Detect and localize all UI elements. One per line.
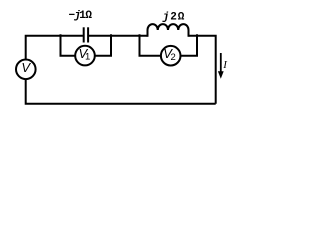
voltmeter V2 <box>161 46 181 66</box>
svg-text:Ω: Ω <box>178 12 185 24</box>
svg-text:I: I <box>222 59 228 71</box>
wire: inductor to top-right corner, right vertical <box>189 36 216 104</box>
current arrow I <box>218 53 228 79</box>
voltmeter V <box>16 60 36 80</box>
svg-text:2: 2 <box>170 12 177 24</box>
wire: V2 branch right <box>181 34 197 56</box>
svg-text:Ω: Ω <box>85 10 92 22</box>
wire: capacitor to inductor <box>89 35 148 37</box>
label j2ohm <box>162 12 185 24</box>
label -j1ohm <box>69 10 93 22</box>
wire: bottom wire and left vertical up to voltmeter <box>26 79 216 103</box>
inductor j2ohm <box>148 24 189 37</box>
wire: left vertical + top wire to capacitor <box>26 36 83 60</box>
wire: V1 branch left <box>61 34 76 56</box>
voltmeter V1 <box>75 46 95 66</box>
wire: V2 branch left <box>140 34 161 56</box>
svg-text:V: V <box>21 60 31 75</box>
svg-text:2: 2 <box>171 52 176 63</box>
capacitor -j1ohm plates <box>84 27 88 42</box>
wire: V1 branch right <box>95 34 111 56</box>
svg-text:j: j <box>162 12 170 24</box>
svg-text:1: 1 <box>85 52 90 63</box>
